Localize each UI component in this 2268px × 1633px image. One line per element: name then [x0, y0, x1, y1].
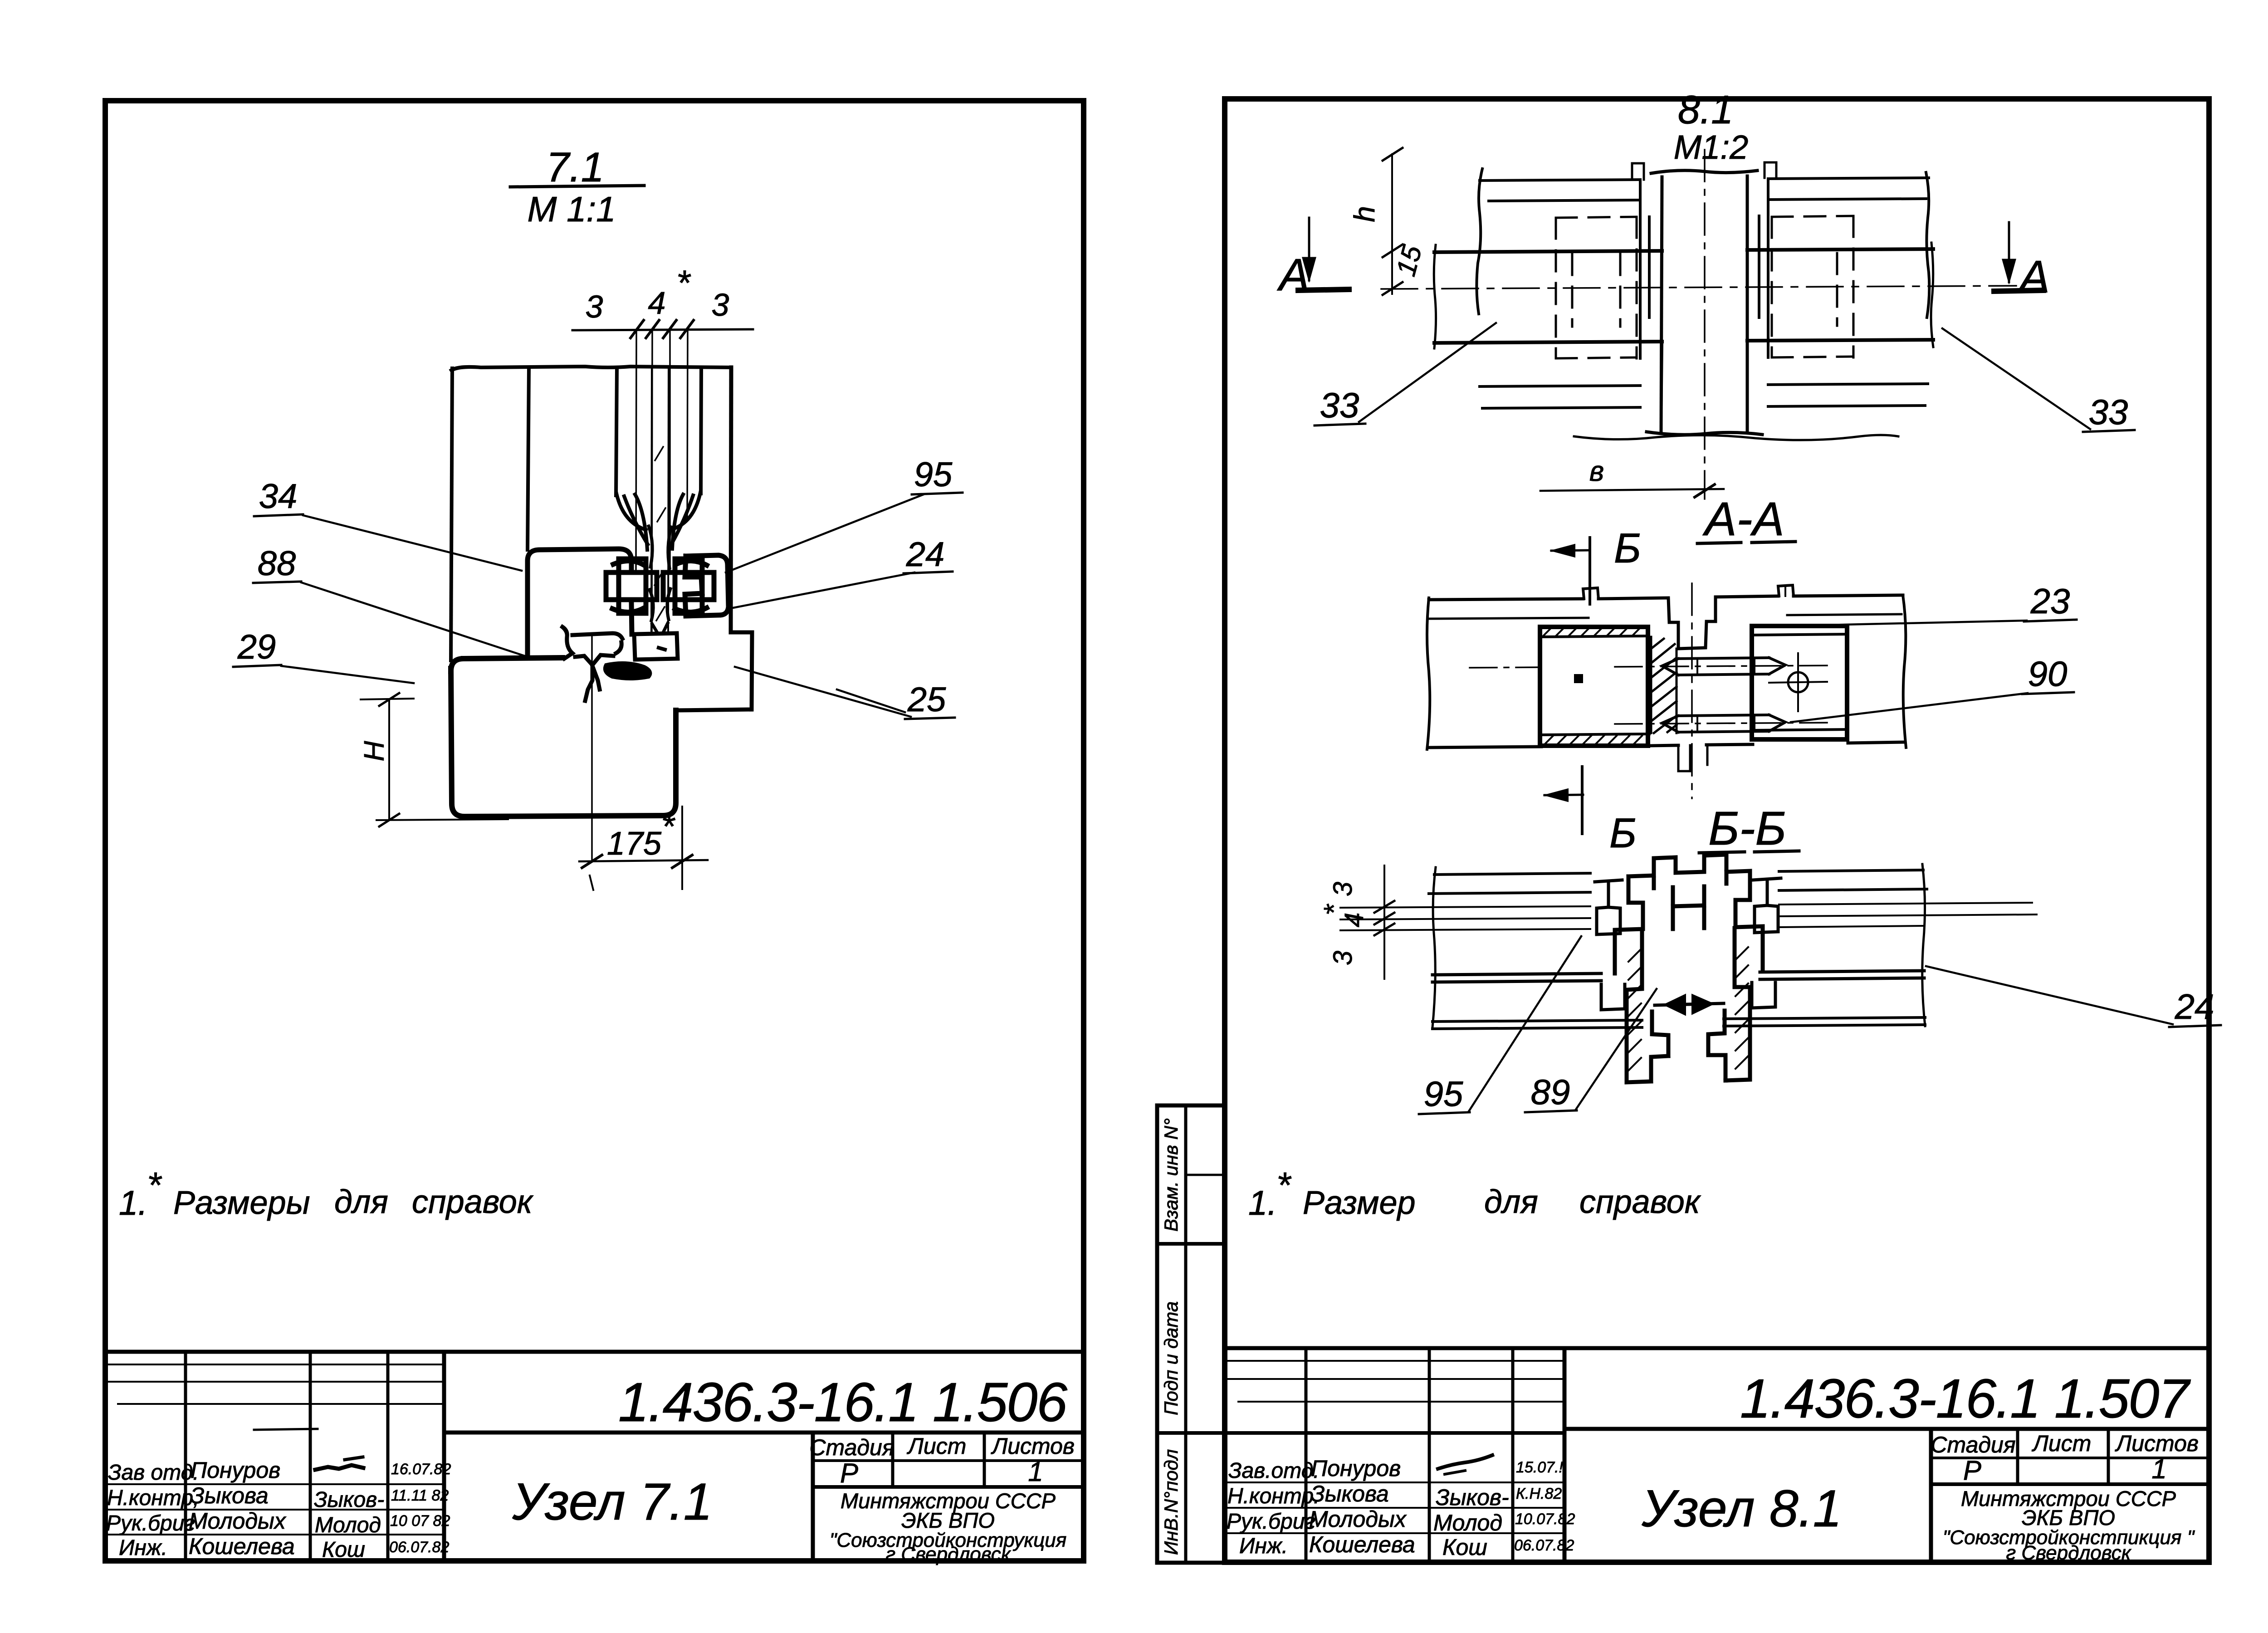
org line 1 — [841, 1489, 1056, 1513]
BB right panel lower lines — [1760, 971, 1924, 979]
svg-text:г Свердловск: г Свердловск — [2006, 1542, 2131, 1564]
rtb thick row line — [1157, 1431, 1564, 1435]
plan: center vertical dash-dot — [1704, 150, 1706, 499]
title block: stadia row bottom — [813, 1485, 1084, 1489]
AA bolt upper — [1662, 658, 1785, 675]
v dimension — [1540, 456, 1724, 497]
svg-text:*: * — [676, 263, 691, 303]
label A-A — [1697, 493, 1795, 546]
svg-text:175: 175 — [607, 826, 662, 862]
r row n kontr — [1227, 1481, 1389, 1508]
svg-text:Р: Р — [1963, 1455, 1981, 1486]
svg-text:10.07.82: 10.07.82 — [1515, 1511, 1575, 1528]
svg-text:Кош: Кош — [322, 1538, 365, 1562]
rtb thin row 3 — [1238, 1401, 1564, 1403]
plan: beam top line right — [1747, 249, 1933, 250]
svg-text:1.: 1. — [1248, 1184, 1277, 1222]
r date 2 — [1516, 1485, 1562, 1502]
svg-text:Б-Б: Б-Б — [1708, 802, 1786, 855]
svg-text:Зыкова: Зыкова — [1311, 1481, 1389, 1506]
extension line a — [636, 330, 636, 571]
right cross seal — [663, 559, 714, 613]
BB connector hatch — [1628, 947, 1748, 1071]
BB central connector outer — [1615, 855, 1763, 973]
plan: small screw top left — [1632, 163, 1644, 180]
plan: lower column continuation — [1661, 342, 1747, 431]
svg-text:для: для — [334, 1184, 388, 1220]
signature smudge top — [315, 1457, 363, 1470]
org line 4 — [885, 1543, 1011, 1565]
section mark B lower — [1545, 767, 1637, 856]
svg-text:А: А — [2017, 251, 2050, 302]
left table thin row 2 — [105, 1381, 444, 1383]
note: 1.* Razmery dlya spravok — [119, 1165, 534, 1222]
r org line 2 — [2022, 1506, 2115, 1530]
svg-text:Н.контр,: Н.контр, — [107, 1486, 199, 1510]
svg-text:33: 33 — [1320, 385, 1359, 425]
rtb vertical col B — [1428, 1348, 1431, 1562]
glass pane edges — [651, 367, 669, 631]
plan: beam left freehand end — [1434, 245, 1436, 348]
svg-text:1.436.3-16.1 1.507: 1.436.3-16.1 1.507 — [1740, 1368, 2191, 1429]
left table name row sep 1 — [105, 1483, 444, 1485]
AA left glass block — [1540, 627, 1649, 746]
title block vertical: stadia/list divider — [891, 1433, 894, 1487]
AA center hatched post — [1651, 637, 1677, 733]
section mark A left — [1277, 218, 1349, 300]
svg-text:24: 24 — [2175, 987, 2214, 1027]
callout 24 (right sheet) — [1926, 966, 2221, 1027]
BB left freehand edge — [1432, 867, 1436, 1027]
extension line d — [687, 330, 688, 521]
callout 25 (left sheet) — [735, 667, 955, 719]
extension line b — [652, 330, 652, 633]
section mark A right — [1994, 222, 2050, 302]
bottom bar piece (podkladka) — [634, 633, 678, 660]
svg-text:Листов: Листов — [991, 1433, 1075, 1459]
BB clip top left — [1595, 880, 1622, 934]
svg-text:Кошелева: Кошелева — [1309, 1532, 1415, 1557]
svg-text:06.07.82: 06.07.82 — [389, 1539, 449, 1556]
strip label Podp i data — [1160, 1301, 1182, 1415]
r value 1 — [2151, 1454, 2166, 1484]
profile right outer wall — [731, 367, 731, 632]
r row zav otd — [1228, 1456, 1401, 1483]
svg-text:Лист: Лист — [907, 1433, 967, 1459]
plan: hidden flange left (dashed) — [1556, 217, 1637, 358]
svg-text:Кош: Кош — [1442, 1535, 1487, 1560]
rtb name row sep 1 — [1225, 1481, 1564, 1483]
rtb thin row 1 — [1225, 1360, 1564, 1362]
svg-text:1.436.3-16.1 1.506: 1.436.3-16.1 1.506 — [618, 1371, 1067, 1433]
title block vertical: uzel cell right — [811, 1433, 815, 1561]
AA inner top line right — [1787, 614, 1901, 615]
left frame block (thick) — [528, 549, 632, 657]
svg-text:3: 3 — [1328, 882, 1358, 896]
svg-text:Листов: Листов — [2115, 1431, 2199, 1456]
svg-text:Инж.: Инж. — [1239, 1534, 1288, 1558]
AA left freehand edge — [1427, 598, 1430, 749]
svg-text:Зыков-: Зыков- — [1436, 1485, 1509, 1510]
r value P — [1963, 1455, 1981, 1486]
175* dimension — [579, 807, 708, 890]
gasket squeeze along glass — [649, 526, 671, 633]
BB glass lines right — [1779, 903, 2037, 927]
svg-text:К.Н.82: К.Н.82 — [1516, 1485, 1562, 1502]
row inzh — [119, 1534, 295, 1560]
svg-text:95: 95 — [1424, 1074, 1463, 1114]
svg-text:справок: справок — [412, 1184, 534, 1220]
title block top line — [105, 1350, 1084, 1354]
svg-text:24: 24 — [906, 535, 945, 574]
svg-text:Рук.бриг: Рук.бриг — [1227, 1510, 1315, 1534]
r signature smudge top — [1438, 1455, 1492, 1474]
plan: lower bar left lines — [1480, 386, 1640, 408]
plan: flange plate left solid — [1640, 180, 1649, 358]
row zav otd — [108, 1457, 280, 1485]
svg-text:Н.контр.: Н.контр. — [1227, 1484, 1320, 1508]
glass hatch ticks — [655, 447, 665, 621]
r date 3 — [1515, 1511, 1575, 1528]
rtb list/listov divider — [2107, 1429, 2110, 1484]
left table thin row 1 — [105, 1364, 444, 1365]
left table thin row 4 (partial) — [254, 1429, 318, 1430]
left table thin row 3 — [118, 1403, 444, 1405]
svg-text:Инж.: Инж. — [119, 1536, 167, 1560]
r header List — [2032, 1431, 2092, 1456]
AA bottom lines — [1429, 742, 1905, 748]
left table name row sep 2 — [105, 1509, 444, 1511]
plan: top-right bar — [1768, 172, 1929, 318]
callout 24 (left sheet) — [733, 535, 953, 608]
svg-text:Р: Р — [840, 1458, 858, 1488]
svg-text:справок: справок — [1579, 1184, 1701, 1220]
svg-text:Зыков-: Зыков- — [314, 1488, 384, 1512]
BB left panel bottom band — [1432, 1020, 1642, 1029]
svg-text:23: 23 — [2030, 581, 2070, 621]
AA center vertical dash-dot — [1691, 583, 1693, 798]
svg-text:для: для — [1484, 1184, 1538, 1220]
view label 7.1 / M 1:1 — [510, 144, 644, 229]
r org line 3 — [1943, 1526, 2195, 1549]
svg-text:7.1: 7.1 — [546, 144, 604, 191]
strip label Inv N podl — [1160, 1449, 1182, 1555]
svg-text:16.07.82: 16.07.82 — [391, 1461, 451, 1478]
date 1 — [391, 1461, 451, 1478]
svg-text:15.07.!: 15.07.! — [1516, 1459, 1564, 1476]
squeezed gasket curves upper-left — [616, 494, 648, 550]
AA right glass block — [1752, 626, 1848, 739]
BB right panel top lines — [1779, 870, 1927, 890]
svg-text:Зыкова: Зыкова — [191, 1483, 269, 1508]
svg-text:*: * — [661, 807, 675, 846]
callout 95 (right sheet) — [1419, 936, 1581, 1114]
date 2 — [391, 1487, 449, 1504]
AA bolt center lines — [1470, 665, 1833, 724]
right C-block (thick) — [685, 555, 728, 616]
svg-text:М 1:1: М 1:1 — [527, 189, 616, 229]
plan: lower bar right lines — [1768, 384, 1928, 406]
svg-text:Стадия: Стадия — [809, 1435, 894, 1460]
svg-text:29: 29 — [237, 628, 276, 666]
svg-text:Узел 8.1: Узел 8.1 — [1641, 1480, 1842, 1538]
right note: 1.* Razmer dlya spravok — [1248, 1165, 1701, 1222]
svg-text:34: 34 — [259, 477, 298, 516]
callout 89 (right sheet) — [1525, 989, 1657, 1112]
plan: flange plate right solid — [1759, 179, 1768, 357]
rtb stadia header underline — [1931, 1457, 2209, 1459]
r signature molod — [1433, 1510, 1502, 1535]
profile inner-left wall — [528, 367, 529, 550]
r org line 4 — [2006, 1542, 2131, 1564]
rtb stadia row bottom — [1931, 1482, 2209, 1486]
BB left dims 3/4*/3 — [1319, 865, 1394, 979]
svg-text:Лист: Лист — [2032, 1431, 2092, 1456]
svg-text:*: * — [1319, 904, 1350, 915]
plan: hidden flange right (dashed) — [1772, 216, 1853, 357]
rtb number cell bottom — [1564, 1427, 2209, 1431]
org line 2 — [901, 1508, 995, 1532]
AA right block crosshair — [1769, 653, 1827, 711]
left cross seal — [606, 559, 657, 613]
BB central connector lower body — [1627, 928, 1750, 1082]
svg-text:3: 3 — [1328, 951, 1358, 965]
BB right freehand edge — [1922, 864, 1925, 1026]
svg-text:ИнВ.N°подл: ИнВ.N°подл — [1160, 1449, 1182, 1555]
plan: top-left bar — [1476, 169, 1640, 314]
svg-text:Молод: Молод — [315, 1513, 381, 1537]
org line 3 — [830, 1529, 1067, 1551]
callout 33 right — [1942, 328, 2135, 432]
right title Uzel 8.1 — [1641, 1480, 1842, 1538]
svg-text:Н: Н — [359, 741, 390, 761]
svg-text:Молодых: Молодых — [189, 1508, 287, 1534]
profile mid-left wall — [616, 367, 617, 495]
title block vertical: col C — [386, 1352, 390, 1561]
rtb name row sep 3 — [1225, 1532, 1564, 1534]
svg-text:Размер: Размер — [1303, 1185, 1416, 1221]
svg-text:8.1: 8.1 — [1678, 87, 1733, 132]
svg-text:Зав отд.: Зав отд. — [108, 1461, 199, 1485]
callout 90 — [1791, 654, 2074, 722]
AA top outline with center notch — [1429, 595, 1903, 649]
BB glass lines left — [1340, 906, 1590, 930]
V-clip spring — [562, 627, 622, 701]
r row inzh — [1239, 1532, 1415, 1558]
callout 95 (left sheet) — [726, 455, 963, 572]
svg-text:3: 3 — [586, 289, 603, 324]
plan: beam top line left — [1434, 251, 1662, 252]
svg-text:Стадия: Стадия — [1931, 1432, 2015, 1457]
AA top screw left — [1583, 588, 1598, 599]
plan: horizontal center dash-dot — [1381, 286, 2016, 289]
callout 33 left — [1315, 323, 1496, 425]
r date 4 — [1514, 1537, 1574, 1554]
svg-text:Взам. инв N°: Взам. инв N° — [1160, 1118, 1182, 1232]
left table name row sep 3 — [105, 1534, 444, 1535]
svg-text:10 07 82: 10 07 82 — [390, 1512, 450, 1530]
callout 29 — [233, 628, 414, 683]
plan: beam bottom line left — [1434, 342, 1662, 343]
svg-text:4: 4 — [648, 285, 666, 321]
dimension line 3 / 4* / 3 (top) — [572, 263, 753, 338]
sheet frame (left sheet) — [105, 101, 1084, 1561]
right title block top line — [1225, 1346, 2209, 1350]
document number 1.436.3-16.1 1.506 — [618, 1371, 1067, 1433]
svg-text:06.07.82: 06.07.82 — [1514, 1537, 1574, 1554]
rtb stadia/list divider — [2016, 1429, 2019, 1484]
svg-text:11.11 82: 11.11 82 — [391, 1487, 449, 1504]
svg-text:90: 90 — [2028, 654, 2068, 694]
svg-text:Рук.бриг: Рук.бриг — [106, 1511, 195, 1535]
AA bolt lower — [1662, 715, 1785, 732]
center line through V-clip — [591, 637, 593, 862]
r header Stadia — [1931, 1432, 2015, 1457]
rtb vertical col A — [1305, 1348, 1308, 1562]
svg-text:Молод: Молод — [1433, 1510, 1502, 1535]
svg-text:3: 3 — [712, 287, 729, 323]
title block vertical: list/listov divider — [983, 1433, 986, 1487]
title block: stadia header underline — [813, 1459, 1084, 1462]
rtb name row sep 2 — [1225, 1507, 1564, 1509]
date 3 — [390, 1512, 450, 1530]
rtb vertical col C — [1511, 1348, 1515, 1562]
svg-text:М1:2: М1:2 — [1674, 128, 1749, 166]
rtb thin row 2 — [1225, 1378, 1564, 1380]
value P — [840, 1458, 858, 1488]
svg-text:h: h — [1348, 206, 1381, 222]
BB clip lower right — [1752, 983, 1775, 1008]
svg-text:1.: 1. — [119, 1184, 147, 1222]
right document number 1.436.3-16.1 1.507 — [1740, 1368, 2191, 1429]
plan: bottom freehand wavy edge — [1574, 435, 1898, 440]
svg-text:Кошелева: Кошелева — [189, 1534, 295, 1559]
r header Listov — [2115, 1431, 2199, 1456]
svg-text:Б: Б — [1609, 810, 1637, 856]
h dimension — [1348, 148, 1427, 295]
title block: number cell bottom line — [444, 1431, 1084, 1435]
extension line c — [669, 330, 671, 572]
view label 8.1 / M1:2 — [1674, 87, 1749, 166]
svg-text:Понуров: Понуров — [191, 1457, 280, 1483]
callout 88 — [253, 544, 533, 659]
AA left glass hatch top — [1543, 628, 1642, 744]
plan: central column — [1647, 171, 1762, 435]
svg-text:А-А: А-А — [1702, 493, 1784, 546]
squeezed gasket curves upper-right — [672, 493, 700, 549]
svg-text:Узел 7.1: Узел 7.1 — [512, 1473, 712, 1531]
callout 34 — [254, 477, 522, 571]
r signature kosh — [1442, 1535, 1487, 1560]
svg-text:Б: Б — [1614, 525, 1641, 572]
strip label Vzam inv — [1160, 1118, 1182, 1232]
AA right freehand edge — [1903, 595, 1906, 748]
profile top cap — [451, 367, 731, 370]
svg-text:Размеры: Размеры — [173, 1185, 310, 1221]
svg-text:Понуров: Понуров — [1311, 1456, 1401, 1481]
profile mid-right wall — [701, 367, 701, 494]
row n kontr — [107, 1483, 269, 1510]
BB left panel top lines — [1429, 873, 1590, 894]
label B-B — [1699, 802, 1799, 855]
svg-text:33: 33 — [2089, 392, 2128, 432]
value 1 — [1028, 1457, 1043, 1487]
svg-text:*: * — [1276, 1165, 1292, 1205]
header List — [907, 1433, 967, 1459]
plan: beam bottom line right — [1747, 340, 1933, 341]
signature molod — [315, 1513, 381, 1537]
title block vertical: col A — [184, 1352, 187, 1561]
svg-text:в: в — [1589, 456, 1604, 487]
r signature zykov — [1436, 1485, 1509, 1510]
callout 23 — [1784, 581, 2077, 626]
AA inner top line left — [1429, 618, 1589, 619]
left strip (vertical GOST columns) — [1157, 1105, 1225, 1563]
profile left outer wall — [451, 368, 452, 660]
step to lower-right piece — [677, 632, 752, 710]
svg-text:Зав.отд.: Зав.отд. — [1228, 1459, 1320, 1483]
BB middle bolt arrows — [1655, 994, 1724, 1015]
lower big block (thick rounded) — [451, 658, 676, 816]
svg-text:95: 95 — [914, 455, 953, 494]
r date 1 — [1516, 1459, 1564, 1476]
svg-text:Подп и дата: Подп и дата — [1160, 1301, 1182, 1415]
header Stadia — [809, 1435, 894, 1460]
H dimension — [359, 693, 508, 826]
svg-text:*: * — [147, 1165, 162, 1205]
plan: beam right freehand end — [1931, 243, 1933, 347]
svg-text:1: 1 — [1028, 1457, 1043, 1487]
BB right panel bottom band — [1724, 1017, 1925, 1026]
svg-text:25: 25 — [907, 680, 946, 719]
svg-text:89: 89 — [1531, 1072, 1570, 1112]
BB clip lower left — [1601, 984, 1625, 1010]
BB clip top right — [1753, 878, 1781, 933]
header Listov — [991, 1433, 1075, 1459]
r row ruk brig — [1227, 1506, 1407, 1534]
sheet frame (right sheet) — [1225, 99, 2209, 1562]
date 4 — [389, 1539, 449, 1556]
plan: small screw top right — [1765, 162, 1776, 178]
svg-text:1: 1 — [2151, 1454, 2166, 1484]
row ruk brig — [106, 1508, 287, 1535]
signature zykov — [314, 1488, 384, 1512]
signature kosh — [322, 1538, 365, 1562]
title block vertical: col B — [309, 1352, 312, 1561]
r org line 1 — [1961, 1486, 2176, 1511]
AA bottom small tabs — [1678, 745, 1707, 771]
BB left panel lower lines — [1432, 973, 1601, 982]
rtb uzel cell right — [1929, 1429, 1933, 1562]
title Uzel 7.1 — [512, 1473, 712, 1531]
svg-text:88: 88 — [258, 544, 296, 583]
gasket blob under bar — [605, 663, 650, 679]
AA top screw right — [1778, 585, 1794, 596]
title block vertical: col D (big cell divider) — [442, 1352, 446, 1561]
section mark B upper — [1551, 525, 1641, 604]
svg-text:г Свердловск: г Свердловск — [885, 1543, 1011, 1565]
svg-text:Молодых: Молодых — [1309, 1506, 1407, 1532]
rtb vertical col D — [1563, 1348, 1567, 1562]
